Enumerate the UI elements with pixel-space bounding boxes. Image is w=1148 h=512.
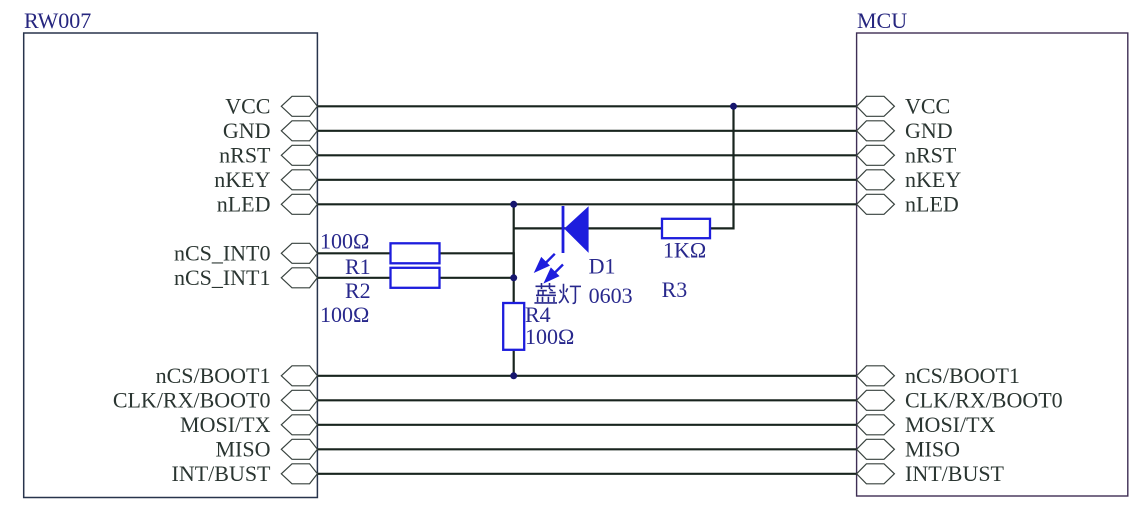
svg-text:nCS_INT1: nCS_INT1 [174,265,271,290]
svg-text:nCS_INT0: nCS_INT0 [174,241,271,266]
svg-text:100Ω: 100Ω [320,229,369,254]
svg-text:100Ω: 100Ω [525,324,574,349]
svg-text:MISO: MISO [215,437,270,462]
svg-text:nLED: nLED [905,192,959,217]
svg-text:MISO: MISO [905,437,960,462]
svg-text:D1: D1 [589,254,616,279]
svg-text:nKEY: nKEY [905,167,961,192]
svg-text:GND: GND [905,118,953,143]
svg-text:GND: GND [223,118,271,143]
svg-text:INT/BUST: INT/BUST [905,461,1005,486]
svg-text:nKEY: nKEY [214,167,270,192]
svg-text:1KΩ: 1KΩ [663,238,706,263]
svg-text:0603: 0603 [589,283,633,308]
svg-text:CLK/RX/BOOT0: CLK/RX/BOOT0 [113,388,271,413]
svg-text:nCS/BOOT1: nCS/BOOT1 [156,363,271,388]
svg-text:R1: R1 [345,254,371,279]
svg-text:R2: R2 [345,278,371,303]
svg-text:100Ω: 100Ω [320,302,369,327]
svg-text:nRST: nRST [905,143,957,168]
svg-text:CLK/RX/BOOT0: CLK/RX/BOOT0 [905,388,1063,413]
svg-text:nRST: nRST [219,143,271,168]
svg-text:nLED: nLED [217,192,271,217]
svg-text:VCC: VCC [225,94,270,119]
svg-text:MCU: MCU [857,8,907,33]
svg-text:R3: R3 [662,277,688,302]
svg-text:MOSI/TX: MOSI/TX [905,412,996,437]
svg-text:RW007: RW007 [24,8,91,33]
svg-text:nCS/BOOT1: nCS/BOOT1 [905,363,1020,388]
svg-text:VCC: VCC [905,94,950,119]
svg-text:MOSI/TX: MOSI/TX [180,412,271,437]
svg-text:INT/BUST: INT/BUST [172,461,272,486]
